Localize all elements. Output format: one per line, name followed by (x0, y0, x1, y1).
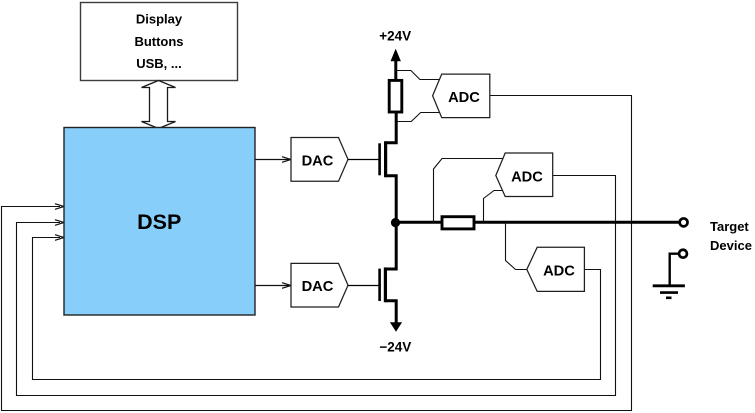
svg-text:DAC: DAC (302, 279, 334, 295)
svg-text:Buttons: Buttons (134, 34, 183, 49)
svg-text:−24V: −24V (379, 339, 411, 354)
svg-text:Display: Display (136, 11, 183, 26)
svg-text:DAC: DAC (302, 153, 334, 169)
svg-text:Device: Device (710, 238, 752, 253)
svg-text:+24V: +24V (379, 28, 411, 43)
svg-text:ADC: ADC (511, 170, 543, 186)
svg-text:Target: Target (710, 219, 749, 234)
svg-text:USB, ...: USB, ... (136, 56, 182, 71)
svg-text:ADC: ADC (543, 263, 575, 279)
svg-text:DSP: DSP (137, 210, 181, 234)
svg-text:ADC: ADC (448, 90, 480, 106)
